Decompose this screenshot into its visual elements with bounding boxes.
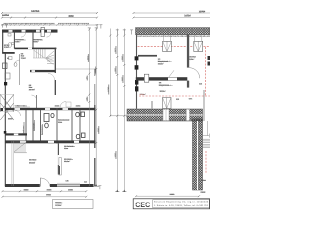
svg-text:Mogelstandsbu: Mogelstandsbu	[159, 84, 173, 87]
svg-text:11,0m²: 11,0m²	[158, 63, 164, 66]
svg-text:14. Saal: 14. Saal	[29, 160, 37, 162]
svg-text:27,0m²: 27,0m²	[29, 162, 36, 165]
svg-text:1,0m²: 1,0m²	[202, 179, 207, 182]
svg-text:1,3m²: 1,3m²	[4, 46, 9, 49]
svg-text:Speisekamm: Speisekamm	[42, 125, 44, 135]
svg-text:9,2m²: 9,2m²	[189, 58, 194, 61]
svg-text:10754: 10754	[2, 14, 9, 17]
svg-text:1,85: 1,85	[66, 181, 69, 183]
svg-text:365 50 979 1,25 985 50 910 25: 365 50 979 1,25 985 50 910 25 985 1470	[4, 23, 55, 25]
svg-text:500 979 940 1475: 500 979 940 1475	[58, 23, 89, 25]
svg-text:Vorhanden: Vorhanden	[33, 123, 36, 131]
svg-text:5,3m²: 5,3m²	[15, 40, 20, 43]
svg-text:12764: 12764	[31, 9, 40, 13]
svg-text:1,25 36,50 98,5 1,25 36,50 98,: 1,25 36,50 98,5 1,25 36,50 98,5 36,50 1,…	[136, 36, 210, 38]
svg-text:Funktionszi: Funktionszi	[22, 125, 25, 134]
svg-text:7,5m²: 7,5m²	[21, 57, 26, 60]
svg-text:CEC: CEC	[135, 202, 150, 209]
svg-text:1,5m²: 1,5m²	[58, 121, 63, 124]
svg-text:02: 02	[7, 58, 9, 60]
svg-text:J. Sütiste tn. 4-26, 13420, Ta: J. Sütiste tn. 4-26, 13420, Tallinn, tel…	[154, 204, 209, 207]
svg-text:2105: 2105	[55, 106, 59, 108]
svg-text:5,3m²: 5,3m²	[34, 40, 39, 43]
svg-text:13,2m²: 13,2m²	[64, 160, 71, 163]
svg-text:1,5m²: 1,5m²	[64, 147, 69, 150]
svg-text:11740: 11740	[108, 86, 110, 92]
svg-text:940: 940	[87, 98, 89, 101]
svg-text:276: 276	[87, 77, 89, 80]
svg-text:2,05: 2,05	[199, 84, 202, 86]
svg-text:750: 750	[17, 105, 20, 107]
svg-text:16,0m²: 16,0m²	[160, 90, 167, 93]
svg-text:3068: 3068	[68, 15, 74, 18]
svg-text:45,7m²: 45,7m²	[29, 88, 36, 91]
svg-text:17,0m²: 17,0m²	[140, 93, 147, 96]
svg-text:17,0m²: 17,0m²	[55, 204, 62, 207]
svg-text:1350: 1350	[23, 105, 27, 107]
svg-text:4,05: 4,05	[176, 99, 179, 101]
svg-text:12764: 12764	[199, 10, 206, 13]
svg-text:Structure Engineering OC, reg.: Structure Engineering OC, reg.nr. 115405…	[154, 201, 209, 204]
svg-text:10754: 10754	[184, 15, 191, 18]
svg-text:2090: 2090	[76, 106, 80, 108]
